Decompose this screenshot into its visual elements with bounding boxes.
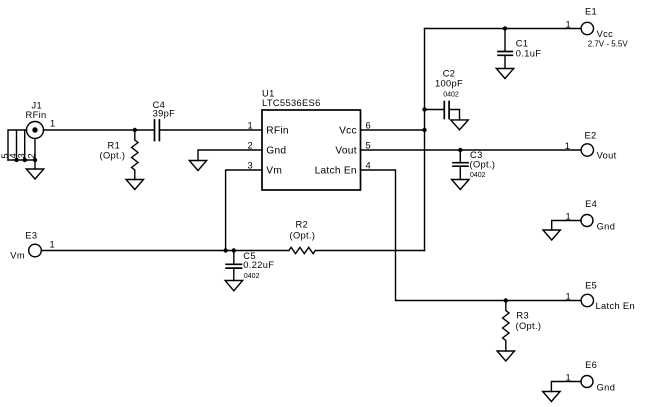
svg-text:E3: E3	[25, 230, 37, 240]
pin number E1-1	[565, 19, 571, 29]
wire R2 to Vcc vertical	[315, 250, 424, 252]
svg-text:2: 2	[247, 140, 253, 150]
svg-text:R3: R3	[516, 311, 529, 321]
wire J1 pin5 stub	[8, 130, 27, 160]
svg-text:Vm: Vm	[10, 251, 25, 261]
svg-text:E6: E6	[585, 360, 597, 370]
junction J1 pin2	[33, 158, 37, 162]
svg-text:5: 5	[366, 140, 372, 150]
svg-text:100pF: 100pF	[435, 78, 463, 88]
wire U1 pin2 to ground	[198, 150, 262, 161]
svg-text:4: 4	[366, 160, 372, 170]
svg-text:(Opt.): (Opt.)	[516, 321, 542, 331]
pin name Vout	[335, 146, 356, 157]
terminal E3	[29, 244, 42, 257]
svg-text:LTC5536ES6: LTC5536ES6	[262, 98, 321, 108]
junction pin6 Vcc	[422, 128, 426, 132]
pin number J1-3	[16, 153, 26, 159]
svg-text:1: 1	[247, 120, 253, 130]
junction C2 tap	[422, 107, 426, 111]
label C1 0.1uF	[516, 38, 542, 58]
pin name Latch En	[315, 166, 357, 177]
label U1 LTC5536ES6	[262, 89, 321, 108]
ground C3	[452, 180, 469, 190]
svg-text:3: 3	[247, 160, 253, 170]
pin name Gnd	[266, 146, 286, 157]
ground C1	[496, 69, 513, 79]
svg-text:RFin: RFin	[26, 110, 47, 120]
svg-text:C1: C1	[516, 38, 529, 48]
pin number U1-5	[366, 140, 372, 150]
svg-text:Vm: Vm	[266, 166, 282, 177]
pin number J1-2	[27, 153, 37, 159]
pin number J1-4	[8, 153, 18, 159]
pin number E5-1	[565, 291, 571, 301]
wire C4 to U1 pin1	[159, 129, 262, 131]
terminal E5	[581, 294, 593, 306]
capacitor C4	[155, 120, 160, 141]
capacitor C3	[453, 150, 468, 180]
terminal E1	[581, 22, 593, 34]
label R1 (Opt.)	[100, 141, 126, 161]
wire J1 pin3	[24, 130, 26, 160]
ground C5	[225, 281, 243, 291]
svg-text:0402: 0402	[244, 273, 260, 280]
capacitor C5	[226, 251, 241, 281]
svg-text:Vout: Vout	[335, 146, 356, 157]
wire E6 to ground	[551, 382, 581, 392]
svg-text:3: 3	[16, 153, 26, 159]
svg-text:1: 1	[565, 291, 571, 301]
svg-text:Vcc: Vcc	[339, 126, 357, 137]
resistor R3	[503, 301, 509, 352]
resistor R2	[289, 247, 316, 253]
pin name Vm	[266, 166, 282, 177]
svg-text:Vcc: Vcc	[597, 29, 614, 39]
pin number J1-1	[50, 119, 56, 129]
label J1 RFin	[26, 101, 47, 121]
junction C3 tap	[458, 148, 462, 152]
pin number U1-3	[247, 160, 253, 170]
pin number E4-1	[565, 211, 571, 221]
wire U1 pin3 to Vm node	[226, 170, 262, 251]
label E4 Gnd	[585, 199, 615, 232]
svg-text:Gnd: Gnd	[597, 382, 616, 392]
svg-text:(Opt.): (Opt.)	[290, 231, 316, 241]
ground C2	[451, 120, 469, 130]
junction pin3 Vm	[223, 248, 227, 252]
ground J1	[26, 169, 43, 179]
svg-text:Gnd: Gnd	[266, 146, 286, 157]
pin number U1-1	[247, 120, 253, 130]
svg-text:1: 1	[565, 211, 571, 221]
svg-text:C2: C2	[443, 69, 456, 79]
label C5 0.22uF 0402	[243, 251, 274, 280]
pin name RFin	[266, 126, 289, 137]
svg-text:Latch En: Latch En	[315, 166, 357, 177]
junction J1 pin4	[14, 158, 18, 162]
svg-text:R2: R2	[296, 220, 309, 230]
terminal E2	[581, 144, 593, 156]
pin number J1-5	[0, 153, 10, 159]
svg-text:0.1uF: 0.1uF	[516, 48, 542, 58]
wire E3 Vm to R2	[41, 250, 289, 252]
svg-text:1: 1	[50, 119, 56, 129]
junction C5 tap	[232, 248, 236, 252]
op-amp U1 (IC box LTC5536ES6)	[262, 110, 361, 190]
label R3 (Opt.)	[516, 311, 542, 331]
svg-text:J1: J1	[32, 101, 43, 111]
pin number U1-2	[247, 140, 253, 150]
wire J1 pin4	[16, 130, 18, 160]
svg-text:Vout: Vout	[597, 151, 617, 161]
svg-text:1: 1	[49, 239, 55, 249]
label E1 Vcc 2.7V-5.5V	[585, 6, 628, 48]
label C3 (Opt.) 0402	[470, 150, 496, 179]
wire U1 pin5 Vout to E2	[361, 149, 582, 151]
svg-text:0402: 0402	[443, 91, 459, 98]
junction C1 tap	[503, 26, 507, 30]
svg-text:0402: 0402	[470, 172, 486, 179]
wire U1 pin6 to Vcc net	[361, 129, 425, 131]
terminal E4	[581, 215, 593, 227]
connector J1	[27, 122, 44, 139]
wire J1 pin2	[34, 139, 36, 161]
ground E6	[543, 392, 560, 402]
pin number U1-4	[366, 160, 372, 170]
svg-text:(Opt.): (Opt.)	[470, 160, 496, 170]
svg-text:RFin: RFin	[266, 126, 289, 137]
svg-text:1: 1	[565, 372, 571, 382]
svg-text:1: 1	[565, 19, 571, 29]
ground R3	[497, 351, 514, 361]
label C4 39pF	[153, 100, 176, 119]
wire E4 to ground	[552, 221, 581, 231]
svg-text:E5: E5	[585, 281, 597, 291]
label C2 100pF 0402	[435, 69, 463, 99]
capacitor C2	[425, 102, 460, 120]
ground U1 pin2	[189, 161, 206, 171]
ground R1	[126, 180, 143, 190]
svg-text:1: 1	[565, 141, 571, 151]
label E6 Gnd	[585, 360, 615, 392]
wire Vcc top rail to E1	[425, 28, 582, 30]
capacitor C1	[498, 29, 512, 69]
pin number U1-6	[366, 120, 372, 130]
svg-text:R1: R1	[108, 141, 121, 151]
svg-text:2: 2	[27, 153, 37, 159]
svg-text:E2: E2	[585, 130, 597, 140]
svg-text:2.7V - 5.5V: 2.7V - 5.5V	[588, 40, 629, 49]
svg-text:39pF: 39pF	[153, 109, 176, 119]
svg-text:Latch En: Latch En	[596, 301, 636, 311]
svg-text:(Opt.): (Opt.)	[100, 151, 126, 161]
svg-text:Gnd: Gnd	[597, 222, 616, 232]
pin name Vcc	[339, 126, 357, 137]
terminal E6	[581, 376, 593, 388]
junction J1 pin3	[23, 158, 27, 162]
pin number E3-1	[49, 239, 55, 249]
junction R3 tap	[504, 298, 508, 302]
svg-text:E4: E4	[585, 199, 597, 209]
svg-text:E1: E1	[585, 6, 597, 16]
svg-text:0.22uF: 0.22uF	[243, 260, 274, 270]
pin number E2-1	[565, 141, 571, 151]
label E2 Vout	[585, 130, 617, 160]
label E3 Vm	[10, 230, 37, 260]
wire J1 bottom bus	[8, 160, 35, 169]
ground E4	[543, 230, 560, 240]
resistor R1	[132, 130, 138, 180]
svg-text:6: 6	[366, 120, 372, 130]
svg-text:C3: C3	[470, 150, 483, 160]
label E5 Latch En	[585, 281, 635, 312]
wire U1 pin4 to Latch En row	[361, 170, 582, 301]
label R2 (Opt.)	[290, 220, 316, 241]
wire Vcc vertical net	[424, 29, 426, 251]
pin number E6-1	[565, 372, 571, 382]
wire RFin from J1 to C4	[44, 129, 155, 131]
junction R1 tap	[133, 128, 137, 132]
